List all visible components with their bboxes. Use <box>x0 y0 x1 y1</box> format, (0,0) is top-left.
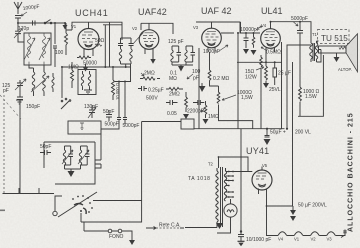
rete arrow <box>146 227 184 230</box>
small cap right of box <box>95 129 101 168</box>
wire V3 top <box>196 22 240 28</box>
svg-text:V2: V2 <box>311 237 317 242</box>
antenna coil L2 <box>43 33 46 65</box>
capacitor 50pF lower <box>40 150 51 155</box>
fono terminals <box>108 229 112 233</box>
svg-text:V3: V3 <box>327 237 333 242</box>
ground small left <box>16 100 23 104</box>
screen feed resistor 1000 ohm <box>210 84 253 129</box>
coil L2 core arrow <box>39 38 50 60</box>
speaker <box>319 46 347 53</box>
secondary winding <box>224 168 226 201</box>
tap dots <box>228 171 234 198</box>
fuse lamp circle <box>224 204 237 217</box>
svg-text:100: 100 <box>55 50 64 56</box>
capacitor pair lower <box>117 82 127 125</box>
wire cathode to 50uF <box>267 205 294 207</box>
pot 2M horizontal <box>140 77 160 80</box>
svg-text:pF: pF <box>193 76 199 82</box>
small coupling coil <box>52 73 54 92</box>
svg-text:25VL: 25VL <box>269 87 281 93</box>
IF3 coil unit a <box>63 146 65 169</box>
svg-text:ALTOP.: ALTOP. <box>338 67 352 72</box>
power transformer T2 <box>208 162 234 228</box>
resistor vertical mid <box>185 92 188 112</box>
svg-text:UAF 42: UAF 42 <box>201 6 232 16</box>
svg-text:200 VL: 200 VL <box>295 130 311 136</box>
osc coil arrow <box>31 76 49 92</box>
resistor 16000 vertical <box>112 74 115 100</box>
band switch S1 <box>61 67 63 98</box>
tube V5 UY41 <box>252 163 272 235</box>
svg-text:50Ω: 50Ω <box>95 38 105 44</box>
ground mid a (filled) <box>183 114 189 119</box>
svg-text:1000pF: 1000pF <box>203 49 220 55</box>
electrolytic 50uF arrow (filled) <box>266 128 268 130</box>
antenna coil box <box>24 33 51 65</box>
switch lever diagonal <box>58 192 97 217</box>
long vertical detector bus <box>240 22 242 33</box>
svg-text:V3: V3 <box>193 25 199 30</box>
detector ground a (filled) <box>243 49 249 54</box>
resistor R grid vertical <box>65 28 68 50</box>
resistor 15 ohm vertical <box>265 62 268 83</box>
antenna coil L1 <box>28 33 31 65</box>
svg-text:1MΩ: 1MΩ <box>68 65 79 71</box>
shielded block on bus <box>181 119 194 129</box>
IF transformer 1 unit a <box>118 38 123 49</box>
oscillator coil pair <box>32 72 35 96</box>
IF can box lower-left <box>44 142 95 184</box>
svg-text:500V: 500V <box>146 96 158 102</box>
wire y200 <box>93 200 142 202</box>
svg-text:50 µF 200VL: 50 µF 200VL <box>298 203 327 209</box>
resistor 0.2M vertical <box>208 52 211 84</box>
capacitor on antenna line <box>30 21 38 26</box>
svg-text:TU 515: TU 515 <box>321 34 348 43</box>
svg-text:T1: T1 <box>312 32 318 37</box>
svg-text:Rete C.A.: Rete C.A. <box>159 223 181 229</box>
detector cap to ground <box>244 33 249 48</box>
speaker ground (filled) <box>334 57 340 62</box>
IF1 connecting wires <box>121 38 132 67</box>
fono ground (filled) <box>129 240 135 245</box>
scan edge mark <box>0 210 5 212</box>
switch wiper arcs <box>74 204 86 215</box>
svg-text:1/2W: 1/2W <box>245 75 257 81</box>
box ground mark <box>84 90 92 94</box>
small can rect upper <box>68 121 101 134</box>
capacitor 5000pF <box>297 22 303 87</box>
svg-text:1MΩ: 1MΩ <box>208 114 219 120</box>
capacitor 2200 <box>193 100 204 105</box>
svg-text:V4: V4 <box>261 23 267 28</box>
output transformer T1 <box>310 32 318 62</box>
svg-text:UL41: UL41 <box>261 6 283 16</box>
svg-text:0.2 MΩ: 0.2 MΩ <box>213 76 230 82</box>
svg-text:0.05: 0.05 <box>167 111 177 117</box>
IF3 coil unit b <box>79 146 81 169</box>
chassis bus y67 <box>62 66 130 68</box>
arrow 5000pF <box>293 22 298 27</box>
svg-text:25 µF: 25 µF <box>278 71 291 77</box>
svg-text:2MΩ: 2MΩ <box>144 71 155 77</box>
arrow 100pF <box>187 74 193 79</box>
audio coupling wire y121.5 <box>142 121 181 123</box>
ground cathode V3 (filled) <box>201 83 203 86</box>
detector coupling wire <box>221 28 260 33</box>
wire transformer top to v5 <box>219 157 253 172</box>
tube V1 UCH41 <box>71 22 99 56</box>
svg-text:0.5MΩ: 0.5MΩ <box>266 50 281 56</box>
primary winding <box>216 168 218 228</box>
svg-text:10000pF: 10000pF <box>240 27 260 33</box>
band switch 2 dots arc <box>72 195 93 213</box>
wire V1 pin risers <box>105 22 109 67</box>
svg-text:1.5W: 1.5W <box>305 94 317 100</box>
vertical bus x241 lower <box>240 129 242 235</box>
wire bottom box <box>81 122 142 223</box>
wire top horizontal <box>18 22 65 24</box>
svg-text:UCH41: UCH41 <box>75 8 109 18</box>
output box right <box>298 55 323 116</box>
terminal circle <box>53 211 57 215</box>
tube V3 UAF42 <box>193 22 221 52</box>
svg-text:V2: V2 <box>132 26 138 31</box>
capacitor 150pF <box>17 92 23 194</box>
transformer ground (filled) <box>216 223 223 229</box>
svg-text:1,5W: 1,5W <box>241 95 253 101</box>
speaker dashed box <box>318 30 350 44</box>
vertical bus x296 <box>287 45 311 129</box>
tube V2 UAF42 <box>132 23 159 59</box>
svg-text:125 pF: 125 pF <box>168 39 184 45</box>
IF2 bottom wire and ground <box>172 65 193 66</box>
dial cord dashed diagonal <box>0 95 21 119</box>
B plus bus <box>194 128 285 130</box>
svg-text:MΩ: MΩ <box>169 76 177 82</box>
switch on antenna line <box>42 20 54 24</box>
wire V2 top <box>141 23 173 34</box>
electrolytic 50uF bottom (filled) <box>292 206 294 210</box>
svg-text:ALLOCCHIO BACCHINI - 215: ALLOCCHIO BACCHINI - 215 <box>348 112 355 232</box>
tube V4 UL41 <box>261 22 281 62</box>
svg-text:130pF: 130pF <box>84 104 98 110</box>
ground under V2 (filled) <box>150 59 155 64</box>
capacitor 0.05 <box>166 100 178 105</box>
wire to V1 grid <box>65 23 67 55</box>
box coil A <box>81 71 83 90</box>
mains bottom wire <box>185 227 217 229</box>
heater chain <box>267 230 347 238</box>
svg-text:pF: pF <box>3 88 9 94</box>
svg-text:150pF: 150pF <box>26 104 40 110</box>
svg-text:FONO: FONO <box>109 234 124 240</box>
wire V4 anode to transformer <box>271 22 312 43</box>
svg-text:V5: V5 <box>262 163 268 168</box>
IF transformer 2 unit b <box>185 46 187 65</box>
svg-text:0.25µF: 0.25µF <box>148 88 164 94</box>
grid coupling arc <box>133 33 144 45</box>
svg-text:10/1000 pF: 10/1000 pF <box>246 237 271 243</box>
electrolytic 25uF <box>273 62 277 85</box>
chassis line bottom-left <box>3 188 55 194</box>
ground IF3 (filled) <box>68 171 75 177</box>
tap wires <box>226 172 234 198</box>
svg-text:UY41: UY41 <box>246 146 269 156</box>
svg-text:2MΩ: 2MΩ <box>169 92 180 98</box>
wire V1 grid rectangle top <box>66 22 122 40</box>
wire stub <box>101 124 119 129</box>
trimmer cap 130pF <box>89 105 95 118</box>
dashed gang line left <box>3 95 5 193</box>
resistor 50000 horizontal under V1 <box>77 56 91 59</box>
resistor 2M horizontal second <box>166 88 183 91</box>
grid cap 100 wire <box>53 23 57 67</box>
IF transformer 2 unit a <box>171 46 173 65</box>
IF transformer 1 unit b <box>129 38 134 49</box>
wire antenna down <box>15 23 24 42</box>
svg-text:100: 100 <box>192 69 201 75</box>
svg-text:50µF +: 50µF + <box>270 130 286 136</box>
capacitor antenna trimmer <box>15 16 21 24</box>
resistor 1000 ohm 1.5W right <box>299 87 302 116</box>
detector resistor vertical <box>252 33 255 48</box>
detector ground b (filled) <box>251 50 257 55</box>
svg-text:V4: V4 <box>278 237 284 242</box>
pot 1M vertical <box>204 101 207 118</box>
capacitor 10/1000 <box>238 235 244 242</box>
oscillator coil box <box>78 70 96 95</box>
svg-text:50pF: 50pF <box>40 144 51 150</box>
antenna <box>14 2 22 14</box>
svg-text:V1: V1 <box>294 237 300 242</box>
arrow from 1000pF label to trimmer <box>21 12 27 16</box>
svg-text:T2: T2 <box>208 162 214 167</box>
wire below coil box <box>29 65 44 72</box>
resistor 1M vertical <box>71 62 74 88</box>
vertical bus x261 <box>260 42 282 129</box>
cap 50pF mid <box>106 110 112 121</box>
ground under 50000 (filled) <box>83 67 89 72</box>
svg-text:UAF42: UAF42 <box>138 7 167 17</box>
ground mid b (filled) <box>203 119 209 124</box>
arrow 15ohm <box>256 67 264 70</box>
ground 15ohm (filled) <box>263 83 269 88</box>
resistor 16000 top stub <box>112 67 114 74</box>
trimmer arrows IF3 <box>62 150 89 164</box>
arrow 10000pF <box>256 26 262 30</box>
ground 10/1000 (filled) <box>238 240 245 242</box>
coil L1 core arrow <box>24 38 35 60</box>
svg-text:TA 1018: TA 1018 <box>188 176 210 182</box>
capacitor 0.25uF <box>138 86 147 91</box>
core lines <box>221 167 223 227</box>
wire mid verticals <box>198 48 200 129</box>
box coil B <box>88 71 90 90</box>
ground top (filled) <box>63 25 68 30</box>
svg-text:500pF: 500pF <box>105 122 119 128</box>
